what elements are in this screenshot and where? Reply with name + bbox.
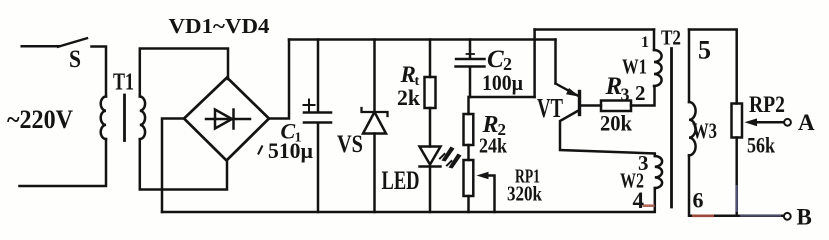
svg-text:56k: 56k — [747, 133, 776, 158]
svg-text:5: 5 — [698, 36, 711, 65]
svg-text:W3: W3 — [692, 118, 717, 143]
svg-text:LED: LED — [382, 166, 420, 195]
svg-text:~220V: ~220V — [7, 105, 73, 134]
svg-text:20k: 20k — [600, 111, 633, 136]
svg-text:S: S — [69, 46, 81, 73]
svg-text:R: R — [400, 62, 416, 87]
svg-text:C: C — [487, 46, 504, 73]
svg-text:T2: T2 — [661, 26, 681, 50]
svg-text:320k: 320k — [507, 182, 542, 206]
svg-text:2k: 2k — [397, 85, 421, 110]
svg-text:24k: 24k — [479, 134, 507, 158]
svg-text:W1: W1 — [622, 55, 647, 79]
svg-text:3: 3 — [621, 85, 630, 105]
svg-text:2: 2 — [635, 81, 646, 105]
svg-text:A: A — [798, 110, 815, 135]
svg-text:100µ: 100µ — [482, 70, 523, 95]
svg-text:VS: VS — [337, 131, 363, 158]
svg-text:T1: T1 — [113, 70, 134, 96]
svg-text:RP2: RP2 — [749, 92, 785, 117]
svg-text:6: 6 — [693, 188, 704, 213]
svg-text:VD1~VD4: VD1~VD4 — [169, 14, 271, 38]
svg-text:510µ: 510µ — [268, 138, 313, 163]
svg-text:1: 1 — [641, 34, 649, 51]
svg-text:B: B — [797, 205, 812, 230]
svg-text:VT: VT — [537, 93, 563, 123]
svg-text:W2: W2 — [620, 169, 644, 193]
